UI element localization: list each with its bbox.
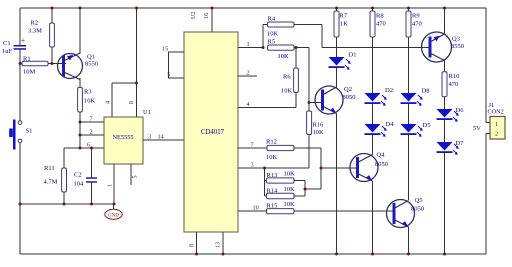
- svg-text:2: 2: [495, 130, 498, 137]
- svg-text:10M: 10M: [23, 69, 36, 76]
- svg-text:R5: R5: [268, 39, 276, 46]
- svg-text:D5: D5: [423, 122, 431, 129]
- svg-text:Q2: Q2: [344, 86, 352, 93]
- svg-text:470: 470: [449, 81, 459, 88]
- svg-text:R15: R15: [267, 203, 278, 210]
- svg-text:5: 5: [132, 175, 139, 178]
- svg-text:13: 13: [215, 242, 222, 248]
- svg-text:10K: 10K: [284, 186, 296, 193]
- svg-text:1: 1: [495, 121, 498, 128]
- svg-text:C1: C1: [3, 40, 11, 47]
- svg-text:CD4017: CD4017: [201, 129, 225, 136]
- svg-text:8550: 8550: [85, 61, 98, 68]
- svg-text:470: 470: [412, 20, 422, 27]
- svg-text:D7: D7: [456, 140, 465, 147]
- svg-text:R14: R14: [267, 187, 279, 194]
- svg-text:8050: 8050: [411, 206, 424, 213]
- svg-text:10: 10: [253, 205, 259, 212]
- svg-text:10K: 10K: [313, 129, 325, 136]
- svg-text:1: 1: [247, 41, 250, 48]
- svg-text:R8: R8: [376, 12, 384, 19]
- svg-text:C2: C2: [74, 172, 82, 179]
- svg-text:8: 8: [188, 244, 195, 247]
- svg-text:R13: R13: [267, 172, 278, 179]
- svg-text:R16: R16: [313, 121, 325, 128]
- svg-text:R3: R3: [84, 89, 92, 96]
- svg-text:1: 1: [107, 184, 114, 187]
- svg-text:R1: R1: [23, 56, 31, 63]
- svg-text:10K: 10K: [278, 53, 290, 60]
- svg-text:1uF: 1uF: [2, 48, 13, 55]
- svg-text:R10: R10: [449, 73, 460, 80]
- svg-text:R12: R12: [266, 139, 277, 146]
- svg-text:R9: R9: [412, 12, 420, 19]
- svg-text:8050: 8050: [375, 161, 388, 168]
- svg-text:3.3M: 3.3M: [28, 27, 42, 34]
- svg-text:D6: D6: [456, 107, 465, 114]
- svg-text:Q1: Q1: [87, 54, 95, 61]
- svg-text:S1: S1: [26, 128, 33, 135]
- svg-text:6: 6: [87, 142, 90, 149]
- svg-text:5V: 5V: [473, 125, 481, 132]
- svg-text:Q4: Q4: [377, 151, 386, 158]
- svg-text:4: 4: [105, 101, 112, 104]
- svg-text:R7: R7: [340, 12, 348, 19]
- svg-text:10K: 10K: [84, 98, 96, 105]
- svg-text:10K: 10K: [284, 170, 296, 177]
- svg-text:D4: D4: [386, 121, 395, 128]
- svg-text:10K: 10K: [284, 201, 296, 208]
- svg-text:R11: R11: [44, 165, 55, 172]
- svg-text:7: 7: [251, 142, 254, 149]
- svg-text:5: 5: [167, 71, 170, 78]
- svg-text:R4: R4: [268, 15, 276, 22]
- svg-text:D8: D8: [422, 88, 430, 95]
- svg-text:D1: D1: [349, 52, 357, 59]
- svg-text:10K: 10K: [267, 30, 279, 37]
- svg-text:10K: 10K: [281, 88, 293, 95]
- svg-text:1K: 1K: [340, 20, 348, 27]
- svg-text:8550: 8550: [451, 43, 464, 50]
- svg-text:Q5: Q5: [415, 197, 423, 204]
- svg-text:10K: 10K: [266, 154, 278, 161]
- svg-text:3: 3: [148, 134, 151, 141]
- svg-text:R2: R2: [31, 20, 39, 27]
- svg-text:4: 4: [247, 101, 250, 108]
- svg-text:470: 470: [376, 20, 386, 27]
- svg-text:16: 16: [203, 13, 210, 19]
- svg-text:14: 14: [158, 134, 164, 141]
- svg-text:D2: D2: [385, 87, 393, 94]
- svg-text:NE5555: NE5555: [113, 134, 134, 141]
- svg-text:R6: R6: [283, 73, 291, 80]
- svg-text:15: 15: [162, 45, 168, 52]
- svg-text:GND: GND: [108, 213, 119, 219]
- svg-text:2: 2: [247, 70, 250, 77]
- svg-text:3: 3: [251, 161, 254, 168]
- svg-text:8050: 8050: [343, 94, 356, 101]
- svg-text:8: 8: [128, 101, 135, 104]
- svg-text:7: 7: [90, 116, 93, 123]
- svg-text:U2: U2: [190, 11, 197, 19]
- svg-text:2: 2: [90, 129, 93, 136]
- svg-text:CON2: CON2: [488, 109, 504, 116]
- svg-text:104: 104: [74, 180, 85, 187]
- svg-text:4.7M: 4.7M: [44, 179, 58, 186]
- svg-text:Q3: Q3: [452, 36, 460, 43]
- svg-text:U1: U1: [143, 109, 151, 116]
- svg-text:+: +: [21, 36, 26, 45]
